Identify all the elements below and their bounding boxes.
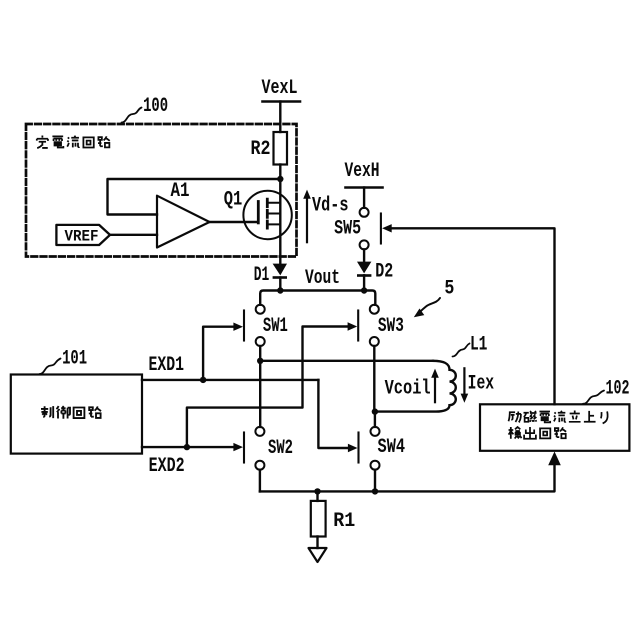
node dot SW4 on bottom rail bbox=[372, 488, 378, 494]
switch SW1 top terminal circle bbox=[256, 305, 265, 314]
wire feedback from node A to op-amp inverting input bbox=[108, 179, 281, 215]
diode D2 triangle bbox=[357, 262, 371, 274]
svg-text:VREF: VREF bbox=[65, 228, 99, 246]
wire EXD1 down to SW4 gate bbox=[318, 380, 349, 448]
node dot D2 on Vout rail bbox=[361, 287, 367, 293]
arrowhead SW4 gate bbox=[348, 444, 358, 452]
switch SW2 top terminal circle bbox=[255, 427, 264, 436]
diode D1 cathode bar bbox=[273, 276, 287, 279]
switch SW3 top terminal circle bbox=[370, 305, 379, 314]
switch SW2 gate bar bbox=[243, 433, 245, 463]
resistor R2 bbox=[274, 132, 288, 165]
arrowhead into detection box bottom (points up) bbox=[548, 452, 561, 466]
label kenshutsukairo (detection circuit) line 2 in box 102 bbox=[509, 427, 567, 439]
arrow Iex measurement line bbox=[463, 368, 465, 397]
svg-text:SW5: SW5 bbox=[334, 218, 361, 241]
label reijidenryuutachiagari (excitation current rise) line 1 in box 102 bbox=[509, 411, 608, 424]
transistor Q1 channel segments bbox=[266, 199, 269, 228]
node B dot SW1/SW2/coil bbox=[257, 358, 263, 364]
svg-text:SW3: SW3 bbox=[378, 315, 404, 338]
arrowhead Vcoil (points up) bbox=[431, 369, 439, 378]
leader squiggle for 100 bbox=[122, 108, 142, 123]
wire SW1 to node B bbox=[259, 346, 261, 361]
wire EXD2 from control box to SW2 gate bbox=[142, 446, 235, 448]
dashed box 100 constant-current circuit bbox=[26, 124, 297, 257]
wire SW5 control line from detection circuit bbox=[391, 228, 555, 404]
wire bottom rail to detection box arrow bbox=[260, 464, 555, 491]
wire VexH to SW5 bbox=[363, 188, 365, 208]
wire EXD1 from control box to corner bbox=[142, 379, 318, 381]
switch SW4 gate bar bbox=[357, 433, 359, 463]
ground symbol bbox=[309, 548, 327, 562]
leader squiggle for 101 bbox=[40, 359, 61, 375]
leader arrow curve for 5 bbox=[419, 298, 441, 314]
switch SW3 bottom terminal circle bbox=[370, 337, 379, 346]
svg-text:A1: A1 bbox=[171, 180, 190, 203]
wire D1 to Vout rail bbox=[279, 278, 281, 291]
diode D1 triangle bbox=[273, 264, 287, 276]
svg-text:EXD2: EXD2 bbox=[149, 455, 185, 478]
svg-text:R2: R2 bbox=[251, 138, 271, 161]
wire R1 to ground bbox=[316, 537, 318, 549]
arrowhead Vd-s (points up) bbox=[303, 190, 311, 199]
svg-text:Vcoil: Vcoil bbox=[385, 378, 431, 401]
svg-text:EXD1: EXD1 bbox=[149, 354, 185, 377]
svg-text:R1: R1 bbox=[333, 510, 355, 533]
arrow Vd-s measurement line bbox=[306, 196, 308, 242]
wire node C down to SW4 bbox=[374, 412, 376, 427]
svg-text:VexH: VexH bbox=[345, 160, 380, 183]
wire Q1 drain-source vertical (node A to D1) bbox=[279, 179, 281, 264]
node dot R1 on bottom rail bbox=[314, 488, 320, 494]
diode D2 cathode bar bbox=[357, 274, 371, 277]
wire VREF to op-amp non-inverting input bbox=[110, 234, 157, 236]
arrowhead SW2 gate bbox=[233, 443, 243, 451]
node A dot (R2/Q1/feedback) bbox=[277, 176, 283, 182]
node dot EXD2 junction bbox=[184, 444, 190, 450]
detection circuit box 102 bbox=[480, 404, 629, 451]
svg-text:SW4: SW4 bbox=[378, 436, 406, 459]
wire VexL to R2 bbox=[279, 102, 281, 133]
power terminal VexH bar bbox=[346, 186, 383, 189]
svg-text:100: 100 bbox=[143, 95, 168, 118]
wire rail node to R1 bbox=[316, 491, 318, 501]
switch SW2 bottom terminal circle bbox=[255, 461, 264, 470]
arrowhead SW3 gate bbox=[348, 322, 358, 330]
arrowhead SW5 gate (points left) bbox=[382, 224, 392, 232]
node C dot coil bottom SW3/SW4 bbox=[372, 408, 378, 414]
svg-text:SW2: SW2 bbox=[268, 437, 293, 460]
wire R2 to node A bbox=[279, 165, 281, 180]
svg-text:Vout: Vout bbox=[305, 267, 340, 290]
resistor R1 bbox=[311, 501, 326, 537]
svg-text:D2: D2 bbox=[375, 260, 393, 283]
svg-text:VexL: VexL bbox=[262, 77, 298, 100]
leader squiggle for L1 bbox=[453, 344, 470, 357]
node dot D1 on Vout rail bbox=[277, 287, 283, 293]
wire op-amp output to Q1 gate bbox=[210, 221, 258, 223]
arrowhead SW1 gate bbox=[233, 323, 243, 331]
switch SW1 bottom terminal circle bbox=[256, 337, 265, 346]
VREF tag pentagon bbox=[56, 225, 110, 245]
svg-text:102: 102 bbox=[606, 378, 630, 401]
wire D2 to Vout rail node bbox=[363, 275, 365, 290]
arrow Vcoil measurement line bbox=[434, 375, 436, 403]
op-amp A1 bbox=[157, 196, 210, 248]
svg-text:L1: L1 bbox=[470, 334, 488, 357]
wire node B to coil L1 top bbox=[260, 360, 433, 362]
svg-text:5: 5 bbox=[444, 278, 454, 301]
wire node B down to SW2 bbox=[259, 361, 261, 427]
node dot EXD1 junction bbox=[200, 377, 206, 383]
wire SW5 to D2 bbox=[363, 249, 365, 261]
switch SW3 gate bar bbox=[357, 311, 359, 341]
label teidenryuukairo (constant current circuit) in dashed box bbox=[37, 135, 110, 148]
leader squiggle for 102 bbox=[583, 391, 604, 404]
svg-text:Q1: Q1 bbox=[224, 189, 243, 212]
label seigyokairo (control circuit) in box 101 bbox=[41, 406, 101, 419]
switch SW5 top terminal circle bbox=[360, 208, 369, 217]
transistor Q1 drain/body/source stubs bbox=[269, 203, 281, 225]
wire EXD1 branch up to SW1 gate bbox=[203, 327, 234, 380]
svg-text:Vd-s: Vd-s bbox=[312, 195, 349, 218]
switch SW1 gate bar bbox=[243, 311, 245, 341]
transistor Q1 gate bar bbox=[257, 202, 260, 223]
control box 101 bbox=[11, 375, 142, 454]
switch SW5 bottom terminal circle bbox=[360, 240, 369, 249]
switch SW5 gate bar bbox=[380, 214, 382, 244]
transistor Q1 body circle bbox=[243, 191, 291, 239]
wire Vout rail with corners down to SW1 and SW3 bbox=[260, 291, 375, 305]
svg-text:101: 101 bbox=[62, 348, 87, 371]
svg-text:D1: D1 bbox=[254, 264, 270, 287]
inductor L1 bbox=[375, 361, 456, 412]
wire SW4 to bottom rail bbox=[374, 470, 376, 492]
switch SW4 top terminal circle bbox=[371, 427, 380, 436]
wire EXD2 branch up to SW3 gate bbox=[187, 327, 349, 448]
svg-text:SW1: SW1 bbox=[263, 315, 288, 338]
arrowhead Iex (points down) bbox=[461, 394, 469, 403]
switch SW4 bottom terminal circle bbox=[371, 461, 380, 470]
wire SW3 to node C at coil bottom bbox=[373, 346, 375, 412]
svg-text:Iex: Iex bbox=[468, 373, 495, 396]
wire SW2 to bottom rail bbox=[259, 470, 261, 492]
power terminal VexL bar bbox=[263, 100, 301, 103]
arrowhead leader 5 (points down-left) bbox=[414, 309, 425, 318]
